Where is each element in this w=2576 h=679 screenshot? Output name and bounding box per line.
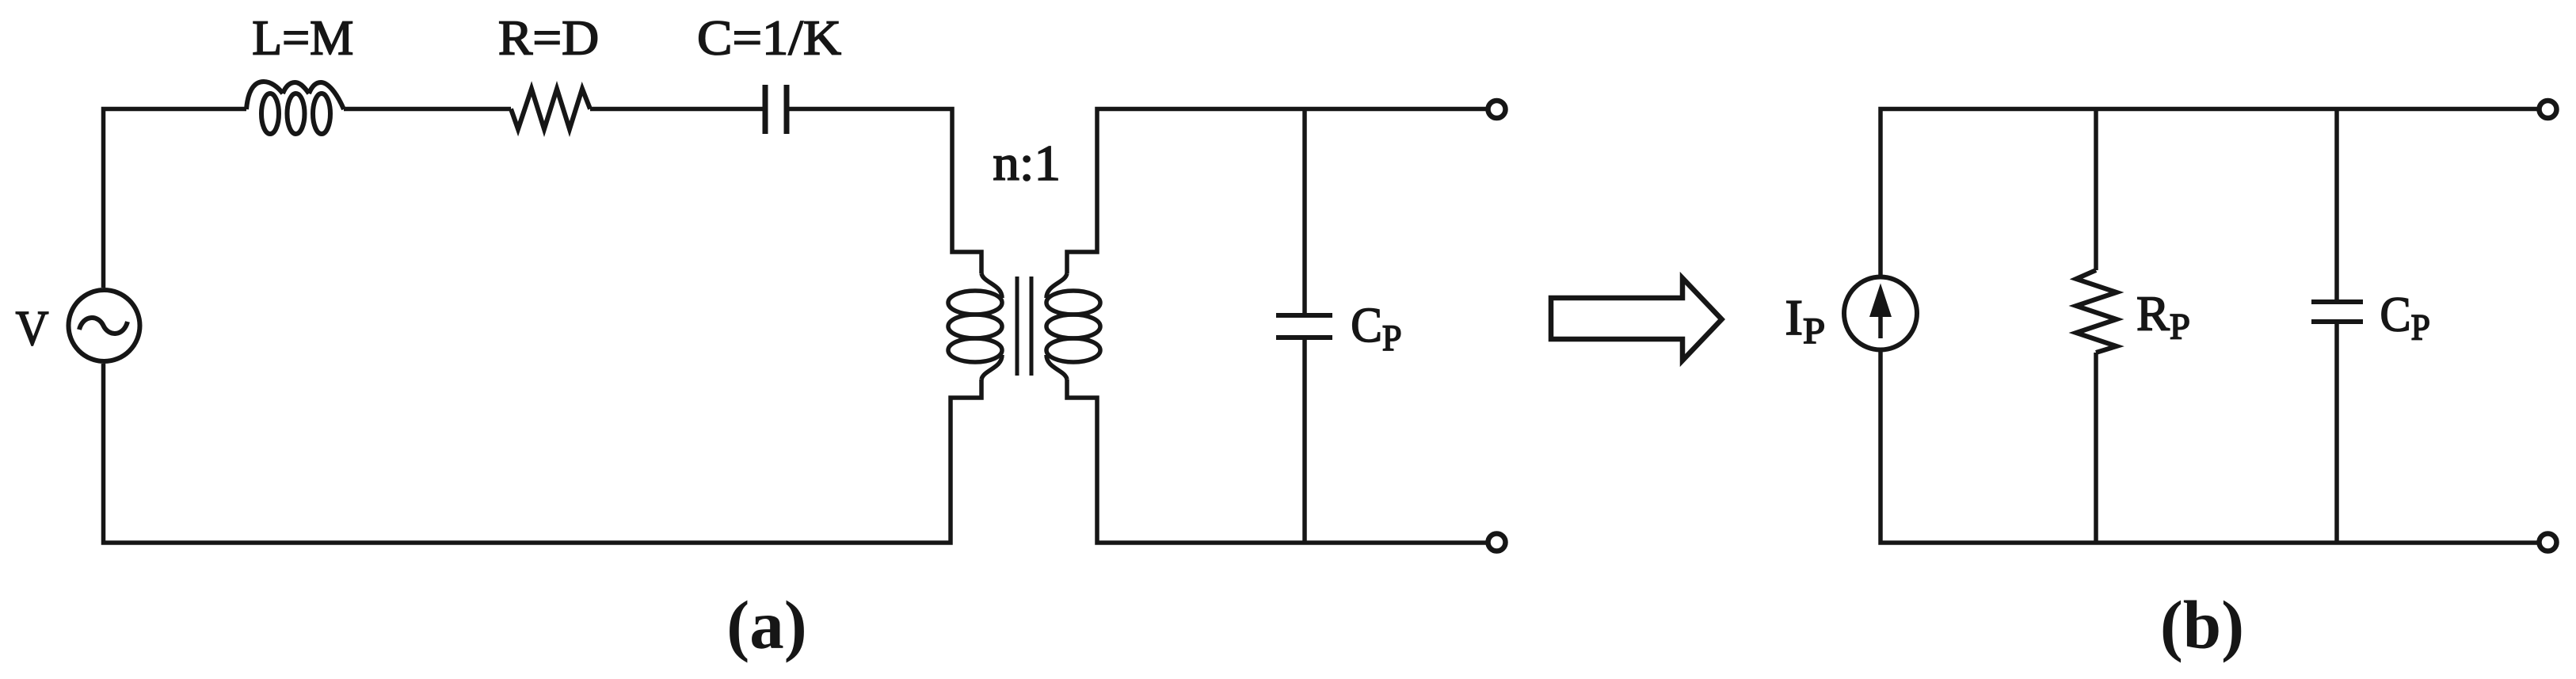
svg-text:C=1/K: C=1/K <box>697 10 841 66</box>
svg-text:n:1: n:1 <box>993 136 1061 192</box>
svg-text:R=D: R=D <box>498 10 599 65</box>
svg-text:V: V <box>16 301 49 357</box>
svg-text:CP: CP <box>2380 288 2430 348</box>
svg-text:CP: CP <box>1351 297 1401 358</box>
svg-text:RP: RP <box>2136 285 2190 347</box>
svg-text:(b): (b) <box>2160 586 2244 663</box>
svg-text:L=M: L=M <box>252 10 353 66</box>
svg-text:IP: IP <box>1785 291 1825 351</box>
svg-text:(a): (a) <box>726 586 806 663</box>
